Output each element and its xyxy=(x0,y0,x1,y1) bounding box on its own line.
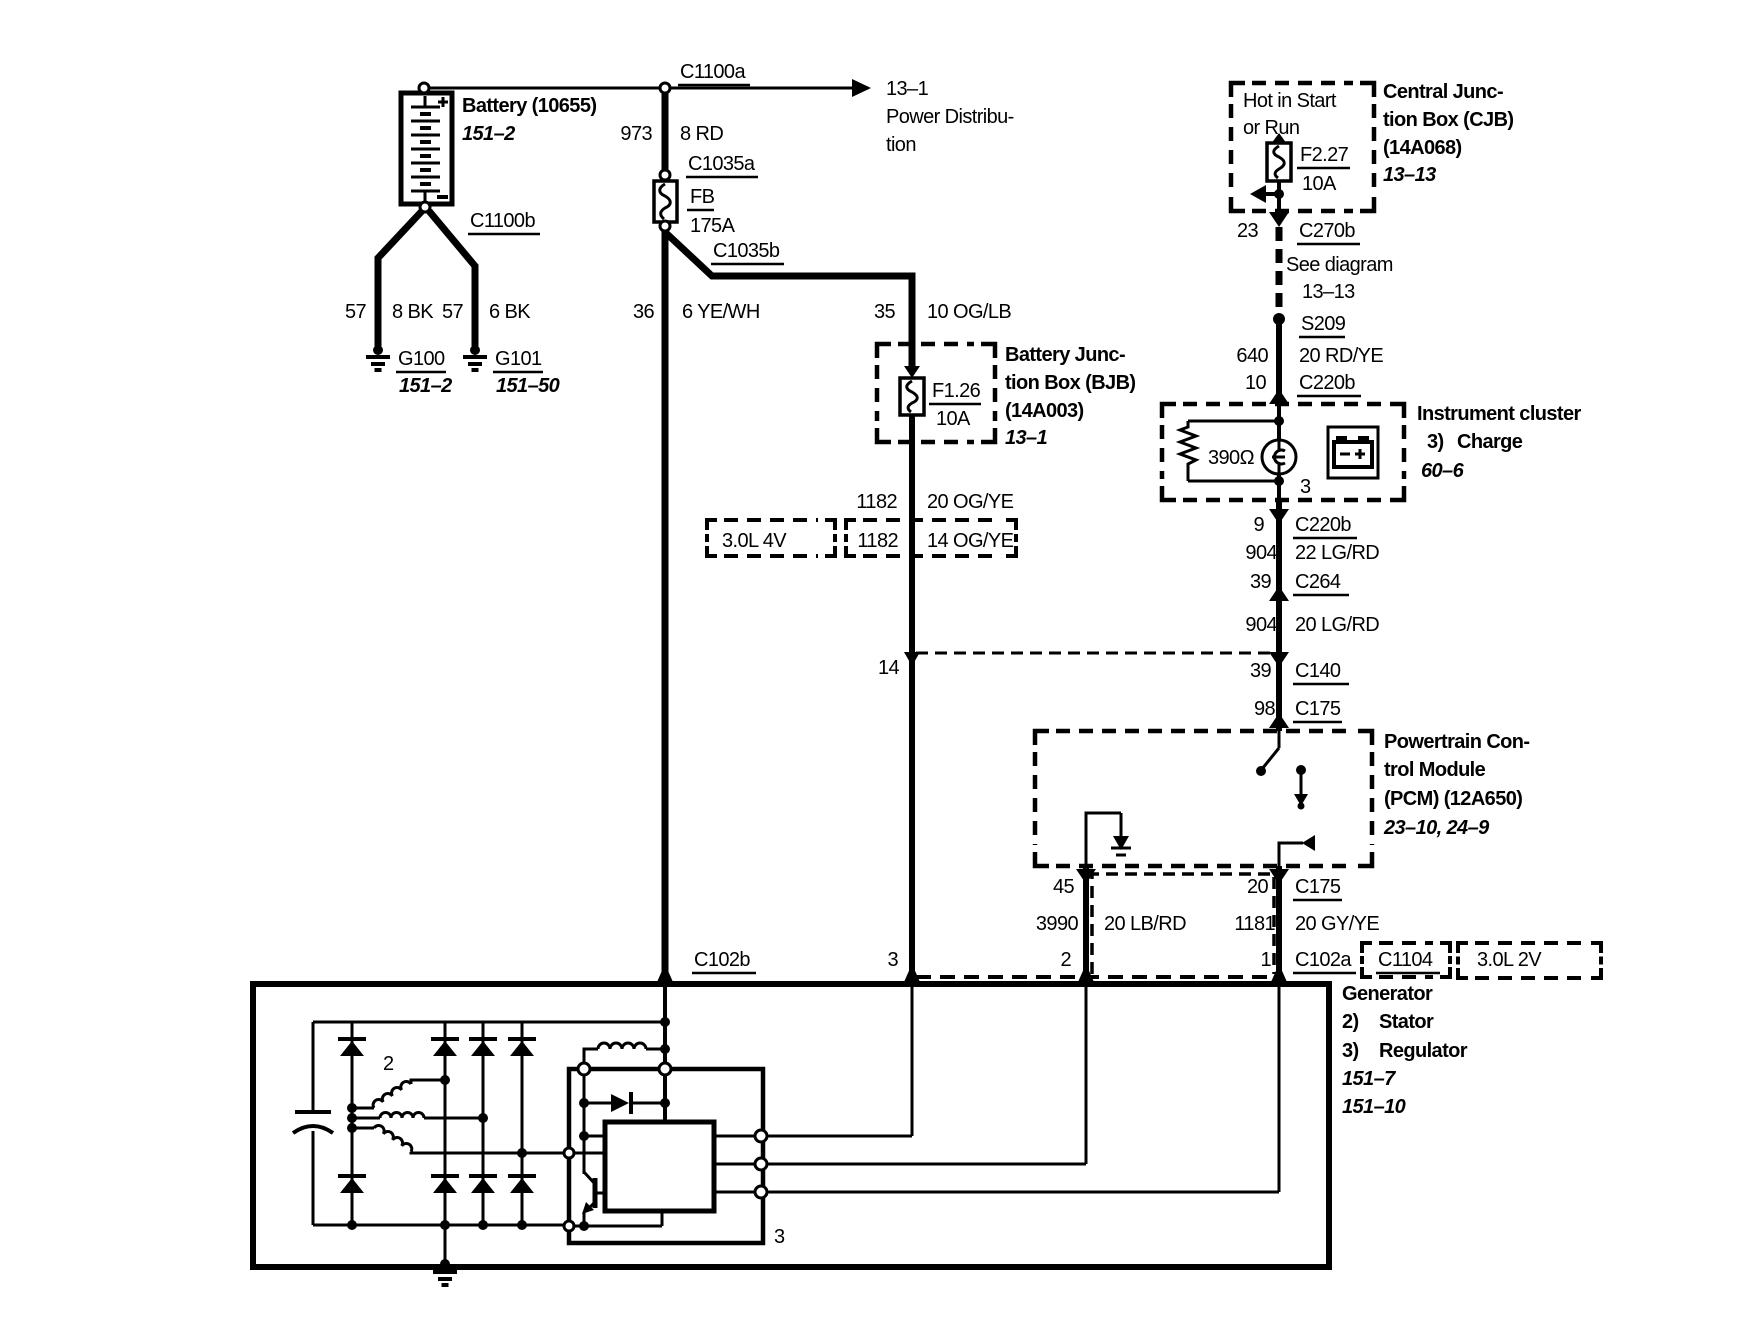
wire battery negative to G100 xyxy=(378,211,422,346)
svg-text:10A: 10A xyxy=(1302,173,1337,195)
svg-text:20 OG/YE: 20 OG/YE xyxy=(927,491,1014,513)
connector C102 dashed line xyxy=(916,975,1279,979)
svg-text:151–50: 151–50 xyxy=(496,375,560,397)
svg-text:Central Junc-: Central Junc- xyxy=(1383,81,1503,103)
stator winding phase B xyxy=(352,1113,483,1119)
svg-text:6 BK: 6 BK xyxy=(489,301,531,323)
svg-text:20 RD/YE: 20 RD/YE xyxy=(1299,345,1383,367)
connector C102 harness dashed box xyxy=(1092,874,1274,974)
svg-text:G101: G101 xyxy=(495,348,542,370)
svg-text:FB: FB xyxy=(690,186,715,208)
wire fuse F2.27 to C270b xyxy=(1277,181,1281,212)
svg-text:Instrument cluster: Instrument cluster xyxy=(1417,403,1581,425)
svg-text:20 GY/YE: 20 GY/YE xyxy=(1295,913,1379,935)
svg-text:tion Box (CJB): tion Box (CJB) xyxy=(1383,109,1513,131)
terminal circle regulator stator sense xyxy=(564,1148,574,1158)
svg-text:3): 3) xyxy=(1427,431,1444,453)
diode column 2 xyxy=(431,1022,459,1225)
node stator common c xyxy=(347,1123,357,1133)
svg-text:C1104: C1104 xyxy=(1378,949,1433,971)
wire lamp to pin 3 xyxy=(1277,474,1281,500)
svg-text:2: 2 xyxy=(1060,949,1071,971)
svg-text:175A: 175A xyxy=(690,215,736,237)
svg-text:13–1: 13–1 xyxy=(1005,427,1048,449)
node B+ field coil junction xyxy=(660,1044,670,1054)
svg-text:20: 20 xyxy=(1247,876,1269,898)
node C1100a junction xyxy=(660,83,670,93)
wire F1.26 to generator (20 OG/YE) xyxy=(909,415,915,984)
svg-text:F2.27: F2.27 xyxy=(1300,144,1349,166)
svg-text:G100: G100 xyxy=(398,348,445,370)
ground G101 xyxy=(463,345,487,370)
node phase A to column 2 xyxy=(440,1075,450,1085)
node below lamp xyxy=(1274,476,1284,486)
wire 20 GY/YE (PCM pin 20) xyxy=(1276,866,1282,984)
svg-text:Hot in Start: Hot in Start xyxy=(1243,90,1337,112)
svg-text:640: 640 xyxy=(1236,345,1268,367)
dashed wire see diagram 13-13 xyxy=(1276,227,1283,319)
svg-text:13–13: 13–13 xyxy=(1302,281,1355,303)
PCM internal sense point xyxy=(1294,765,1308,810)
wire cluster internal xyxy=(1277,404,1281,441)
arrow leaving PCM pin 20 xyxy=(1269,869,1289,884)
terminal circle battery positive xyxy=(419,83,429,93)
connector circle C1035a xyxy=(660,170,670,180)
svg-text:35: 35 xyxy=(874,301,896,323)
svg-text:10: 10 xyxy=(1245,372,1267,394)
svg-text:151–7: 151–7 xyxy=(1342,1068,1396,1090)
svg-text:(14A003): (14A003) xyxy=(1005,400,1084,422)
svg-text:C220b: C220b xyxy=(1299,372,1355,394)
wire bottom rail up to IC xyxy=(661,1211,664,1226)
svg-text:904: 904 xyxy=(1245,542,1277,564)
svg-text:20 LB/RD: 20 LB/RD xyxy=(1104,913,1186,935)
wire 36 6 YE/WH (fuse FB down to generator) xyxy=(662,230,669,984)
svg-text:13–1: 13–1 xyxy=(886,78,929,100)
svg-text:390Ω: 390Ω xyxy=(1208,447,1255,469)
diode column 4 xyxy=(508,1022,536,1225)
svg-text:98: 98 xyxy=(1254,698,1276,720)
dashed wire 14 to C140 xyxy=(916,652,1272,655)
svg-text:tion Box (BJB): tion Box (BJB) xyxy=(1005,372,1135,394)
arrow connector C175 xyxy=(1269,713,1289,728)
svg-text:3.0L 4V: 3.0L 4V xyxy=(722,530,787,552)
svg-text:151–2: 151–2 xyxy=(462,123,515,145)
terminal circle regulator field top xyxy=(578,1063,590,1075)
callout box 3.0L 4V xyxy=(707,520,835,556)
svg-text:Battery (10655): Battery (10655) xyxy=(462,95,596,117)
node bottom rail column 2 xyxy=(440,1220,450,1230)
arrow connector C220b pin 9 xyxy=(1269,509,1289,524)
fuse F1.26 10A xyxy=(900,378,924,415)
svg-text:trol Module: trol Module xyxy=(1384,759,1486,781)
node diode anode xyxy=(579,1098,589,1108)
svg-text:2: 2 xyxy=(383,1053,394,1075)
svg-text:C220b: C220b xyxy=(1295,514,1351,536)
svg-text:22 LG/RD: 22 LG/RD xyxy=(1295,542,1379,564)
svg-text:1181: 1181 xyxy=(1234,913,1275,935)
svg-text:C102b: C102b xyxy=(694,949,750,971)
wire generator terminal 2 drop xyxy=(1085,987,1088,1164)
svg-text:3: 3 xyxy=(887,949,898,971)
svg-text:C1100b: C1100b xyxy=(470,210,535,232)
svg-text:14: 14 xyxy=(878,657,900,679)
arrow into instrument cluster xyxy=(1269,389,1289,404)
arrow leaving PCM pin 45 xyxy=(1076,869,1096,884)
wire C1035b elbow to BJB (10 OG/LB feed) xyxy=(666,233,912,372)
node cluster top junction xyxy=(1274,416,1284,426)
svg-text:C102a: C102a xyxy=(1295,949,1352,971)
terminal circle battery negative C1100b xyxy=(420,202,430,212)
wire IC output C (to PCM pin 20) xyxy=(714,1191,1279,1194)
node B+ top rail junction xyxy=(660,1017,670,1027)
PCM internal drive branch xyxy=(1086,813,1131,866)
svg-text:10 OG/LB: 10 OG/LB xyxy=(927,301,1011,323)
svg-text:S209: S209 xyxy=(1301,313,1346,335)
wire resistor to node 3 xyxy=(1188,480,1279,483)
node emitter to bottom rail xyxy=(579,1221,589,1231)
wire stator sense into IC xyxy=(575,1152,605,1155)
arrow into generator pin 2 xyxy=(1078,964,1094,982)
callout box 3.0L 2V xyxy=(1458,943,1601,978)
stator winding phase C xyxy=(352,1123,563,1153)
svg-text:39: 39 xyxy=(1250,571,1272,593)
svg-text:Charge: Charge xyxy=(1457,431,1523,453)
svg-text:or Run: or Run xyxy=(1243,117,1299,139)
wire sense into IC xyxy=(584,1135,605,1138)
svg-text:57: 57 xyxy=(442,301,464,323)
svg-text:60–6: 60–6 xyxy=(1421,460,1465,482)
svg-text:151–2: 151–2 xyxy=(399,375,452,397)
wire battery negative to G101 xyxy=(429,211,475,346)
svg-text:Power Distribu-: Power Distribu- xyxy=(886,106,1014,128)
regulator IC xyxy=(605,1122,714,1211)
svg-text:C1035a: C1035a xyxy=(688,153,756,175)
indicator lamp (charge) xyxy=(1262,440,1296,474)
wire IC output B (to PCM pin 45) xyxy=(714,1163,1086,1166)
wire 973 8 RD (C1100a to fuse FB) xyxy=(662,93,669,170)
wire 640 20 RD/YE xyxy=(1276,319,1282,404)
PCM internal monitor branch xyxy=(1279,835,1315,866)
terminal circle regulator output B xyxy=(755,1158,767,1170)
terminal circle regulator output C xyxy=(755,1186,767,1198)
field coil xyxy=(584,1043,665,1063)
node phase B to column 3 xyxy=(478,1113,488,1123)
arrow into generator at C102b xyxy=(657,964,673,982)
wire 20 LB/RD (PCM pin 45) xyxy=(1083,866,1089,984)
powertrain control module dashed outline xyxy=(1035,731,1372,866)
svg-text:F1.26: F1.26 xyxy=(932,380,981,402)
field suppression diode xyxy=(584,1092,665,1114)
node stator common a xyxy=(347,1103,357,1113)
svg-text:C140: C140 xyxy=(1295,660,1341,682)
arrow to 13-1 power distribution xyxy=(852,79,871,97)
wire 22 LG/RD chain below cluster xyxy=(1276,500,1282,731)
node stator common b xyxy=(347,1113,357,1123)
svg-text:Powertrain Con-: Powertrain Con- xyxy=(1384,731,1529,753)
PCM internal switch contact xyxy=(1278,731,1281,748)
svg-text:973: 973 xyxy=(620,123,652,145)
svg-text:1182: 1182 xyxy=(857,530,898,552)
svg-text:9: 9 xyxy=(1253,514,1264,536)
svg-text:3: 3 xyxy=(774,1226,785,1248)
terminal circle regulator output A xyxy=(755,1130,767,1142)
svg-text:45: 45 xyxy=(1053,876,1075,898)
terminal circle regulator B+ xyxy=(659,1063,671,1075)
diode column 3 xyxy=(469,1022,497,1225)
node below F2.27 xyxy=(1274,189,1284,199)
ground generator case xyxy=(433,1259,457,1285)
svg-text:8 RD: 8 RD xyxy=(680,123,723,145)
svg-text:36: 36 xyxy=(633,301,655,323)
svg-text:10A: 10A xyxy=(936,408,971,430)
arrow to other CJB circuits xyxy=(1250,185,1266,203)
node phase C to column 4 xyxy=(517,1148,527,1158)
svg-text:20 LG/RD: 20 LG/RD xyxy=(1295,614,1379,636)
svg-text:C1100a: C1100a xyxy=(680,61,746,83)
node bottom rail column 1 xyxy=(347,1220,357,1230)
wire generator terminal 1 drop xyxy=(1278,987,1281,1192)
wire rectifier top rail xyxy=(313,1021,665,1024)
node bottom rail column 3 xyxy=(478,1220,488,1230)
svg-text:C175: C175 xyxy=(1295,876,1341,898)
wire IC output A (to BJB wire) xyxy=(714,1135,912,1138)
instrument cluster dashed outline xyxy=(1162,404,1404,500)
battery (10655) xyxy=(401,93,452,204)
svg-text:2): 2) xyxy=(1342,1011,1359,1033)
arrow into fuse F2.27 xyxy=(1271,133,1287,144)
svg-text:8 BK: 8 BK xyxy=(392,301,434,323)
wire bottom rail through regulator xyxy=(575,1225,662,1228)
regulator outline xyxy=(569,1069,763,1243)
svg-text:904: 904 xyxy=(1245,614,1277,636)
callout box 1182 14 OG/YE xyxy=(846,520,1016,556)
svg-text:(PCM) (12A650): (PCM) (12A650) xyxy=(1384,788,1522,810)
svg-text:151–10: 151–10 xyxy=(1342,1096,1406,1118)
svg-text:Generator: Generator xyxy=(1342,983,1433,1005)
svg-text:3): 3) xyxy=(1342,1040,1359,1062)
svg-text:1: 1 xyxy=(1260,949,1271,971)
svg-text:3990: 3990 xyxy=(1036,913,1079,935)
svg-text:Stator: Stator xyxy=(1379,1011,1434,1033)
wire battery positive to C1100a junction xyxy=(424,87,665,90)
wire to power distribution xyxy=(671,87,852,90)
svg-text:57: 57 xyxy=(345,301,367,323)
arrow connector C264 xyxy=(1269,586,1289,601)
callout box C1104 xyxy=(1362,943,1450,977)
capacitor xyxy=(293,1022,333,1225)
arrow connector C140 xyxy=(1269,652,1289,667)
svg-text:C1035b: C1035b xyxy=(713,240,780,262)
splice S209 xyxy=(1273,313,1285,325)
svg-text:14 OG/YE: 14 OG/YE xyxy=(927,530,1014,552)
node 14 branch arrow xyxy=(904,652,920,666)
svg-text:23: 23 xyxy=(1237,220,1259,242)
wire B+ drop inside generator xyxy=(663,987,667,1069)
terminal circle regulator ground xyxy=(564,1221,574,1231)
node bottom rail column 4 xyxy=(517,1220,527,1230)
stator winding phase A xyxy=(352,1079,445,1108)
svg-text:1182: 1182 xyxy=(856,491,897,513)
svg-text:Battery Junc-: Battery Junc- xyxy=(1005,344,1125,366)
fuse F2.27 10A xyxy=(1267,143,1291,181)
charge telltale battery icon xyxy=(1328,427,1378,478)
svg-text:C270b: C270b xyxy=(1299,220,1355,242)
svg-text:See diagram: See diagram xyxy=(1286,254,1393,276)
wire to generator case ground xyxy=(444,1225,447,1262)
connector circle C1035b xyxy=(660,221,670,231)
arrow into fuse F1.26 xyxy=(904,366,920,378)
wire generator terminal 3 drop xyxy=(911,987,914,1136)
diode column 1 xyxy=(338,1022,366,1225)
svg-text:23–10, 24–9: 23–10, 24–9 xyxy=(1383,817,1490,839)
svg-text:13–13: 13–13 xyxy=(1383,164,1436,186)
svg-text:Regulator: Regulator xyxy=(1379,1040,1468,1062)
resistor 390 ohm xyxy=(1180,421,1196,481)
svg-text:3: 3 xyxy=(1300,476,1311,498)
svg-text:39: 39 xyxy=(1250,660,1272,682)
svg-text:3.0L 2V: 3.0L 2V xyxy=(1477,949,1542,971)
arrow into generator (BJB wire) xyxy=(904,964,920,982)
svg-text:tion: tion xyxy=(886,134,916,156)
svg-text:C264: C264 xyxy=(1295,571,1341,593)
wire stub to other CJB circuits xyxy=(1262,192,1279,196)
fuse FB 175A xyxy=(654,181,677,222)
ground G100 xyxy=(366,345,390,370)
battery junction box (BJB) dashed outline xyxy=(877,344,995,442)
svg-text:6 YE/WH: 6 YE/WH xyxy=(682,301,760,323)
wire to resistor xyxy=(1188,420,1279,423)
arrow into generator pin 1 xyxy=(1271,964,1287,982)
node sense to IC xyxy=(579,1131,589,1141)
arrow connector C270b xyxy=(1269,212,1289,227)
regulator sense line xyxy=(583,1075,586,1174)
node diode cathode xyxy=(660,1098,670,1108)
svg-text:C175: C175 xyxy=(1295,698,1341,720)
generator outline xyxy=(253,984,1329,1267)
svg-text:(14A068): (14A068) xyxy=(1383,137,1462,159)
transistor field driver xyxy=(582,1172,605,1226)
central junction box (CJB) dashed outline xyxy=(1231,83,1374,211)
wire rectifier bottom rail xyxy=(313,1224,563,1227)
